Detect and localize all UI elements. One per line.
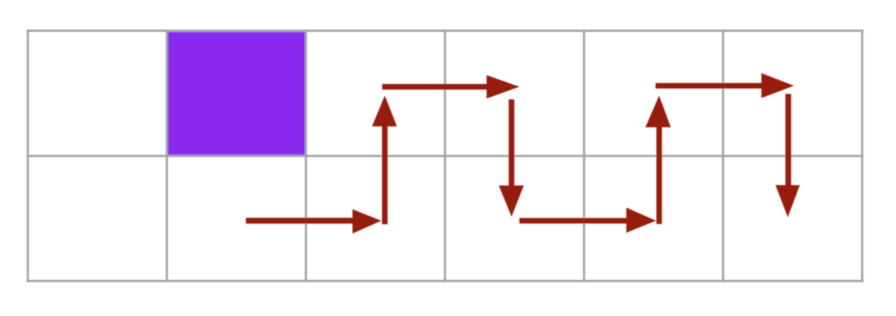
arrow 6: up, col5 row2->row1 — [645, 96, 670, 224]
arrow 8: down, col6 row1->row2 — [776, 94, 800, 217]
arrow 4: down, col4 row1->row2 — [499, 99, 524, 216]
arrow 1: right, row2 col2->col3 — [246, 209, 381, 233]
arrow 2: up, col3 row2->row1 — [372, 96, 397, 225]
arrow 5: right, row2 col4->col5 — [519, 208, 656, 233]
arrow 3: right, row1 col3->col4 — [382, 75, 519, 98]
arrow 7: right, row1 col5->col6 — [656, 73, 794, 98]
purple cell (row 1, col 2) — [168, 32, 305, 155]
